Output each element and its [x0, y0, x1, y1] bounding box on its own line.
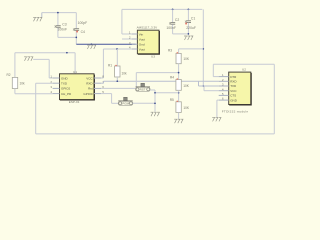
svg-text:100nF: 100nF — [58, 28, 68, 32]
svg-text:AMS1117_3.3V: AMS1117_3.3V — [137, 25, 158, 29]
ground G2 — [87, 45, 96, 49]
button RST — [136, 83, 151, 91]
svg-text:U1: U1 — [73, 70, 77, 74]
svg-text:Vin: Vin — [139, 32, 144, 36]
node 3.3V R3 tap — [202, 48, 204, 50]
svg-text:100pF: 100pF — [78, 21, 88, 25]
svg-text:10K: 10K — [183, 106, 190, 110]
svg-text:Vout: Vout — [139, 37, 145, 41]
node R1 top — [116, 48, 118, 50]
node R2 rail — [66, 52, 68, 54]
wire ESP Rst to RST button — [101, 87, 136, 89]
node R1 bottom — [116, 80, 118, 82]
node PGM ground junction — [154, 102, 156, 104]
resistor R2 — [7, 53, 26, 94]
wire R2 top rail — [15, 53, 75, 74]
svg-text:RXD: RXD — [230, 80, 237, 84]
svg-text:220uF: 220uF — [186, 26, 196, 30]
svg-text:Gnd: Gnd — [139, 42, 145, 46]
wire U3 Vin rail — [122, 9, 202, 34]
pin stubs U1 left — [53, 78, 60, 94]
pin numbers U1 left — [50, 75, 52, 95]
wire ESP TXD loop to U2 pin1 — [36, 64, 275, 134]
node cap bottom junction — [75, 37, 77, 39]
node C1 ground junction — [188, 33, 190, 35]
ground G3 — [24, 57, 33, 61]
pin numbers U3 — [129, 31, 131, 50]
ground G7 — [174, 119, 183, 123]
svg-text:Vout: Vout — [139, 47, 145, 51]
wire R2 bottom to CH_PD — [15, 93, 53, 95]
module U1 ESP-01 — [60, 70, 95, 104]
svg-text:Rst: Rst — [88, 87, 93, 91]
regulator U3 AMS1117_3.3V — [137, 25, 160, 58]
wire cap bottoms — [58, 37, 76, 44]
module U2 FTDI232 — [222, 67, 251, 113]
svg-text:DTR: DTR — [230, 75, 237, 79]
wire C2 C1 bottoms — [173, 33, 189, 35]
button PGM — [118, 97, 133, 105]
svg-text:ESP-01: ESP-01 — [69, 100, 80, 104]
wire branch to U2 pin3 — [199, 81, 219, 86]
svg-text:GND: GND — [230, 98, 238, 102]
svg-text:VCC: VCC — [86, 76, 93, 80]
svg-text:PGM: PGM — [122, 102, 129, 106]
wire ground rail to U3 Gnd — [76, 43, 135, 45]
svg-text:CTS: CTS — [230, 94, 236, 98]
wire top cap rail — [42, 12, 77, 14]
ground G6 — [212, 117, 221, 121]
svg-text:U3: U3 — [151, 55, 155, 59]
wire 3.3V vertical to U2 VCC — [203, 9, 218, 90]
pin stubs U2 — [219, 77, 229, 101]
svg-text:RXD: RXD — [86, 82, 93, 86]
wire divider tap to RST ground rail — [155, 92, 179, 94]
capacitor C3 — [55, 12, 68, 38]
svg-text:GPIO2: GPIO2 — [61, 87, 71, 91]
resistor R4 — [170, 76, 190, 102]
capacitor C4 — [73, 13, 87, 38]
svg-text:10K: 10K — [183, 84, 190, 88]
resistor R1 — [108, 49, 127, 81]
svg-text:R2: R2 — [7, 73, 11, 77]
capacitor C1 — [185, 9, 196, 34]
svg-text:R4: R4 — [170, 76, 174, 80]
svg-text:TXD: TXD — [230, 84, 237, 88]
wire PGM to ground rail — [133, 102, 156, 104]
svg-text:C3: C3 — [62, 23, 66, 27]
capacitor C2 — [166, 9, 179, 34]
node RST rail tap — [154, 92, 156, 94]
resistor R5 — [170, 98, 190, 119]
wire ESP RXD to U2 pin2 — [101, 81, 219, 83]
svg-text:C2: C2 — [175, 18, 179, 22]
resistor R3 — [168, 49, 203, 80]
pin stubs U1 right — [94, 78, 101, 94]
wire RST to ground rail — [150, 90, 155, 112]
node R3 R4 junction — [178, 72, 180, 74]
wire divider tap to Rst — [136, 73, 178, 88]
svg-text:FTDI232 module: FTDI232 module — [222, 109, 249, 113]
wire U2 GND to ground — [217, 100, 219, 117]
svg-text:10k: 10k — [122, 72, 128, 76]
ground G4 — [151, 112, 160, 116]
svg-text:RST: RST — [140, 88, 146, 92]
node R4 R5 junction — [178, 92, 180, 94]
svg-text:10k: 10k — [20, 81, 26, 85]
ground G5 — [184, 36, 193, 40]
ground G1 — [33, 13, 42, 22]
pin stubs U3 — [132, 34, 138, 49]
pin numbers U1 right — [102, 75, 104, 95]
svg-text:R1: R1 — [108, 63, 112, 67]
svg-text:C4: C4 — [81, 30, 85, 34]
svg-text:C1: C1 — [191, 17, 195, 21]
wire ESP GND — [33, 59, 52, 78]
svg-text:VCC: VCC — [230, 89, 237, 93]
svg-text:R5: R5 — [170, 98, 174, 102]
svg-text:R3: R3 — [168, 49, 172, 53]
wire U3 Vout to ESP VCC — [101, 49, 132, 78]
svg-text:TXD: TXD — [61, 82, 68, 86]
node ground rail — [91, 43, 93, 45]
svg-text:CH_PD: CH_PD — [61, 92, 72, 96]
svg-text:U2: U2 — [242, 67, 246, 71]
wire ESP GPIO0 to PGM button — [101, 94, 118, 104]
pin numbers U2 — [222, 73, 224, 101]
svg-text:100nF: 100nF — [166, 26, 176, 30]
wire U3 pin2 stub wire — [122, 38, 132, 40]
svg-text:10K: 10K — [183, 57, 190, 61]
node U2 VCC tap — [202, 85, 204, 87]
svg-text:GPIO0: GPIO0 — [83, 92, 93, 96]
svg-text:GND: GND — [61, 76, 69, 80]
